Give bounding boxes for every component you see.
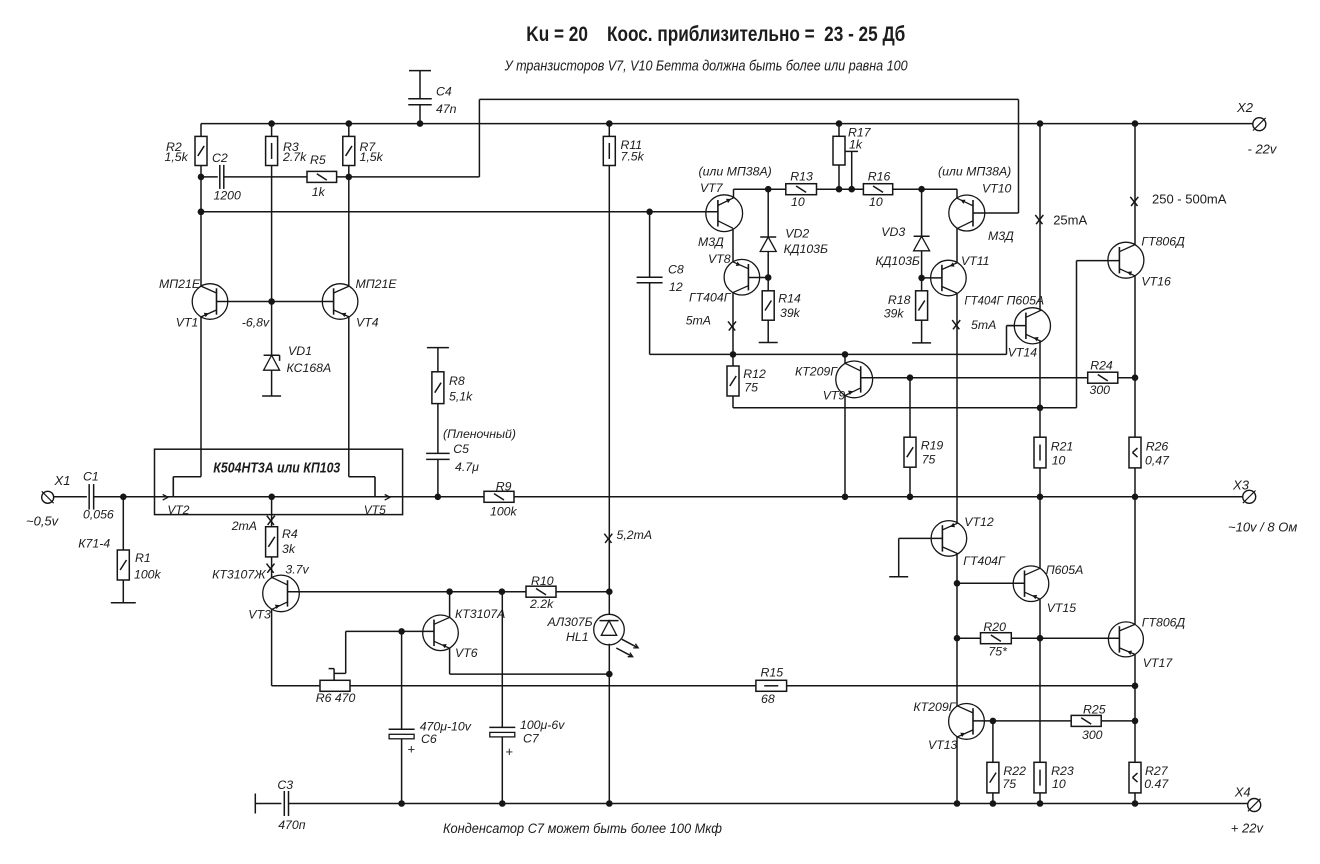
- svg-text:2.7k: 2.7k: [282, 150, 307, 164]
- svg-text:5,1k: 5,1k: [449, 390, 473, 404]
- svg-text:300: 300: [1090, 383, 1111, 397]
- svg-text:VT2: VT2: [167, 503, 189, 517]
- svg-text:(или МП38А): (или МП38А): [699, 165, 772, 179]
- svg-text:5mA: 5mA: [971, 318, 996, 332]
- svg-text:VT6: VT6: [455, 646, 478, 660]
- svg-text:VD1: VD1: [288, 344, 312, 358]
- svg-text:VT1: VT1: [176, 315, 199, 329]
- svg-text:VT17: VT17: [1143, 656, 1174, 670]
- svg-text:0.47: 0.47: [1144, 777, 1169, 791]
- svg-text:+: +: [408, 742, 416, 757]
- svg-text:100k: 100k: [134, 568, 162, 582]
- svg-text:КТ3107А: КТ3107А: [455, 607, 505, 621]
- svg-text:R18: R18: [888, 293, 911, 307]
- svg-text:VT7: VT7: [700, 181, 724, 195]
- svg-text:R26: R26: [1146, 440, 1169, 454]
- svg-text:5,2mA: 5,2mA: [617, 528, 653, 542]
- svg-text:R6 470: R6 470: [316, 691, 356, 705]
- svg-text:ГТ404Г: ГТ404Г: [964, 293, 1004, 307]
- svg-text:C7: C7: [523, 732, 540, 746]
- svg-text:1200: 1200: [214, 189, 242, 203]
- svg-text:П605А: П605А: [1007, 293, 1045, 307]
- svg-text:0,47: 0,47: [1145, 454, 1170, 468]
- svg-text:VD2: VD2: [785, 227, 809, 241]
- svg-text:VD3: VD3: [881, 225, 905, 239]
- svg-text:(Пленочный): (Пленочный): [443, 427, 516, 441]
- svg-text:10: 10: [791, 195, 805, 209]
- svg-text:КС168А: КС168А: [287, 361, 332, 375]
- svg-text:М3Д: М3Д: [988, 229, 1014, 243]
- svg-text:М3Д: М3Д: [698, 235, 724, 249]
- svg-text:VT12: VT12: [964, 515, 994, 529]
- svg-text:АЛ307Б: АЛ307Б: [547, 615, 593, 629]
- svg-text:12: 12: [669, 280, 683, 294]
- svg-text:+: +: [506, 744, 514, 759]
- svg-text:2mA: 2mA: [231, 519, 257, 533]
- svg-text:R27: R27: [1145, 764, 1169, 778]
- svg-text:К71-4: К71-4: [78, 537, 110, 551]
- svg-text:1,5k: 1,5k: [165, 150, 189, 164]
- svg-text:100μ-6v: 100μ-6v: [520, 718, 565, 732]
- svg-text:10: 10: [1052, 777, 1066, 791]
- svg-text:R19: R19: [921, 439, 944, 453]
- svg-text:ГТ404Г: ГТ404Г: [963, 554, 1006, 568]
- svg-text:КД103Б: КД103Б: [784, 242, 828, 256]
- svg-text:VT3: VT3: [248, 607, 271, 621]
- svg-text:Ku = 20 Коос. приблизительн: Ku = 20 Коос. приблизительно = 23 - 25 Д…: [526, 23, 905, 46]
- svg-text:+ 22v: + 22v: [1231, 821, 1265, 836]
- svg-text:C5: C5: [453, 442, 469, 456]
- svg-text:0,056: 0,056: [83, 507, 114, 521]
- svg-text:R5: R5: [310, 153, 326, 167]
- svg-text:2.2k: 2.2k: [529, 597, 554, 611]
- svg-text:470п: 470п: [278, 818, 306, 832]
- svg-text:C6: C6: [421, 732, 437, 746]
- svg-text:C3: C3: [277, 778, 293, 792]
- svg-text:R22: R22: [1003, 764, 1026, 778]
- svg-text:VT13: VT13: [928, 738, 958, 752]
- svg-text:КТ209Г: КТ209Г: [795, 365, 838, 379]
- svg-text:75*: 75*: [988, 645, 1008, 659]
- svg-text:КТ3107Ж: КТ3107Ж: [212, 567, 266, 581]
- svg-text:У транзисторов V7, V10 Бетта д: У транзисторов V7, V10 Бетта должна быть…: [504, 59, 908, 75]
- svg-text:ГТ806Д: ГТ806Д: [1141, 234, 1185, 248]
- svg-text:Конденсатор С7 может быть боле: Конденсатор С7 может быть более 100 Мкф: [443, 821, 722, 836]
- svg-text:VT9: VT9: [823, 389, 846, 403]
- svg-text:39k: 39k: [884, 307, 905, 321]
- svg-text:-6,8v: -6,8v: [242, 315, 270, 329]
- svg-text:X1: X1: [54, 473, 71, 488]
- svg-text:R16: R16: [868, 169, 891, 183]
- svg-text:R21: R21: [1051, 440, 1074, 454]
- svg-text:1,5k: 1,5k: [360, 150, 384, 164]
- svg-text:VT14: VT14: [1008, 346, 1038, 360]
- svg-text:МП21Е: МП21Е: [356, 277, 398, 291]
- svg-text:К504НТ3А или КП103: К504НТ3А или КП103: [213, 460, 341, 477]
- svg-text:C8: C8: [668, 263, 684, 277]
- svg-text:R20: R20: [983, 620, 1006, 634]
- svg-text:300: 300: [1082, 728, 1103, 742]
- svg-text:R4: R4: [282, 527, 298, 541]
- svg-text:75: 75: [1002, 777, 1016, 791]
- svg-text:VT10: VT10: [982, 182, 1012, 196]
- svg-text:~10v / 8 Ом: ~10v / 8 Ом: [1228, 520, 1297, 535]
- svg-text:~0,5v: ~0,5v: [26, 514, 60, 529]
- svg-text:R13: R13: [790, 169, 813, 183]
- svg-text:VT16: VT16: [1141, 275, 1171, 289]
- svg-text:68: 68: [761, 692, 775, 706]
- svg-text:R14: R14: [778, 292, 801, 306]
- svg-text:R24: R24: [1090, 359, 1113, 373]
- svg-text:VT5: VT5: [364, 503, 386, 517]
- svg-text:R25: R25: [1083, 703, 1106, 717]
- svg-text:VT11: VT11: [961, 254, 989, 268]
- svg-text:X4: X4: [1234, 785, 1251, 800]
- svg-text:10: 10: [1052, 454, 1066, 468]
- svg-text:4.7μ: 4.7μ: [455, 460, 479, 474]
- svg-text:(или МП38А): (или МП38А): [938, 165, 1011, 179]
- svg-text:П605А: П605А: [1046, 563, 1084, 577]
- svg-text:C2: C2: [212, 151, 228, 165]
- svg-text:R8: R8: [449, 374, 465, 388]
- svg-text:X2: X2: [1236, 100, 1254, 115]
- svg-text:C1: C1: [83, 470, 99, 484]
- svg-text:1k: 1k: [849, 138, 863, 152]
- svg-text:1k: 1k: [312, 185, 326, 199]
- svg-text:- 22v: - 22v: [1248, 142, 1278, 157]
- svg-text:HL1: HL1: [566, 630, 589, 644]
- svg-text:R1: R1: [135, 551, 151, 565]
- svg-text:3.7v: 3.7v: [285, 562, 309, 576]
- svg-text:R9: R9: [496, 479, 512, 493]
- svg-text:C4: C4: [436, 85, 452, 99]
- svg-text:10: 10: [869, 195, 883, 209]
- svg-text:47n: 47n: [436, 102, 457, 116]
- svg-text:R23: R23: [1051, 764, 1074, 778]
- svg-text:VT4: VT4: [356, 315, 379, 329]
- svg-text:25mA: 25mA: [1053, 213, 1087, 228]
- svg-text:75: 75: [744, 381, 758, 395]
- svg-text:250 - 500mA: 250 - 500mA: [1152, 192, 1227, 207]
- svg-text:ГТ404Г: ГТ404Г: [689, 290, 732, 304]
- svg-text:VT15: VT15: [1047, 601, 1077, 615]
- svg-text:100k: 100k: [490, 505, 518, 519]
- svg-text:39k: 39k: [780, 306, 801, 320]
- svg-text:R15: R15: [761, 666, 784, 680]
- svg-text:X3: X3: [1232, 478, 1250, 493]
- svg-text:VT8: VT8: [708, 252, 731, 266]
- svg-text:7.5k: 7.5k: [621, 150, 645, 164]
- svg-text:ГТ806Д: ГТ806Д: [1142, 616, 1186, 630]
- svg-text:МП21Е: МП21Е: [159, 277, 201, 291]
- svg-text:5mA: 5mA: [686, 314, 711, 328]
- svg-text:КД103Б: КД103Б: [876, 254, 920, 268]
- svg-text:КТ209Г: КТ209Г: [913, 700, 956, 714]
- svg-text:3k: 3k: [282, 542, 296, 556]
- svg-text:R12: R12: [743, 367, 766, 381]
- svg-text:75: 75: [922, 453, 936, 467]
